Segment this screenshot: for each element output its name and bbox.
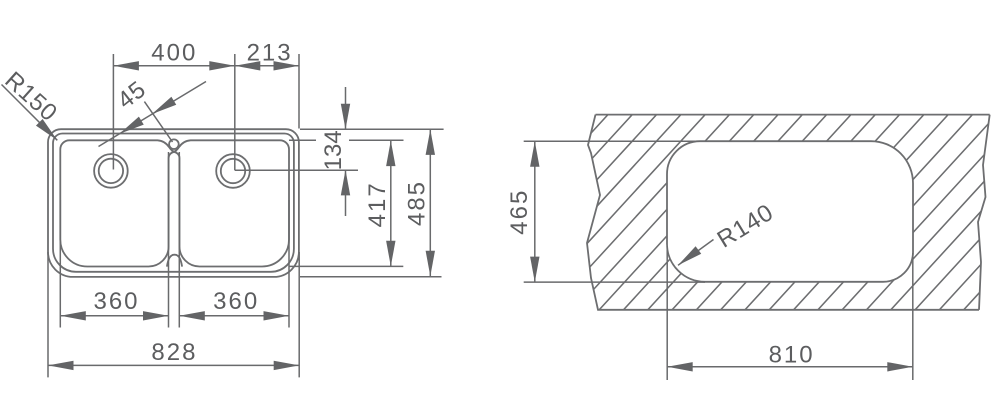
svg-text:360: 360 (213, 288, 259, 315)
svg-text:465: 465 (506, 189, 533, 235)
svg-text:45: 45 (112, 76, 151, 115)
svg-text:417: 417 (364, 181, 391, 227)
svg-text:R140: R140 (713, 199, 779, 254)
svg-text:R150: R150 (0, 67, 63, 128)
svg-text:485: 485 (403, 180, 430, 226)
svg-text:828: 828 (151, 339, 197, 366)
svg-text:213: 213 (247, 40, 293, 67)
svg-text:400: 400 (151, 40, 197, 67)
svg-text:134: 134 (320, 130, 347, 170)
svg-text:810: 810 (769, 342, 815, 369)
svg-text:360: 360 (93, 288, 139, 315)
